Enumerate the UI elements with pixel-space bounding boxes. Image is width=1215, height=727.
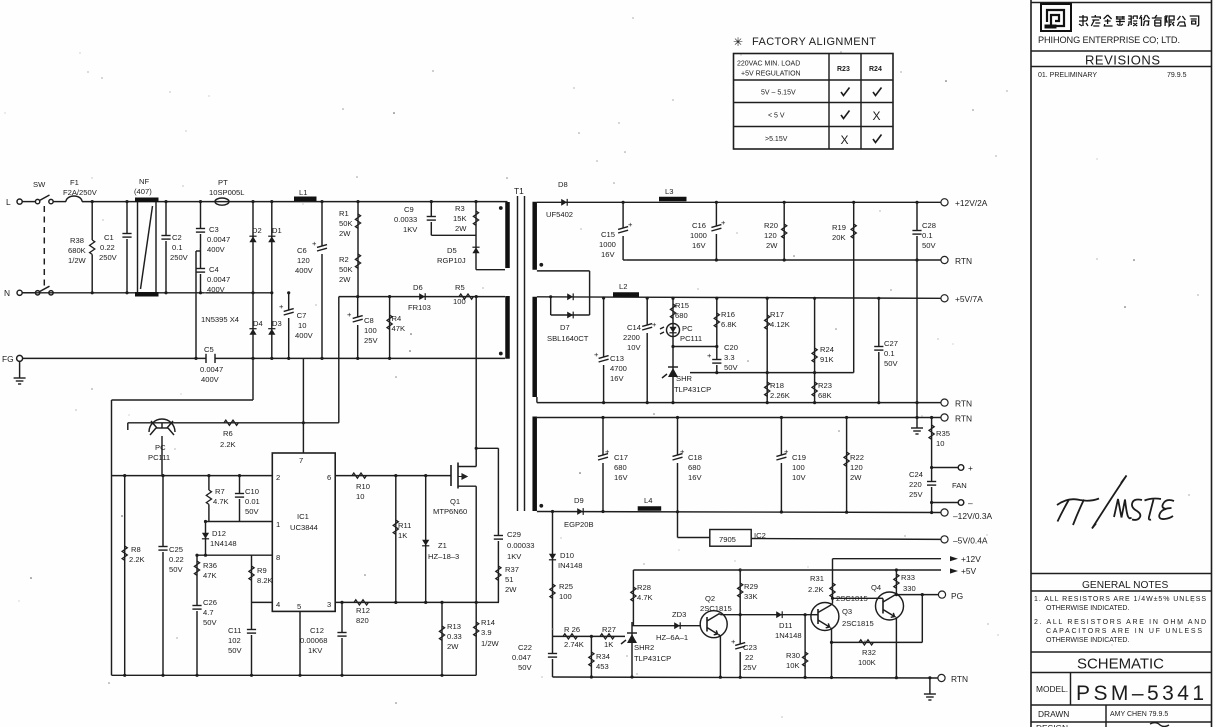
svg-text:102: 102: [228, 636, 241, 645]
svg-text:R16: R16: [721, 310, 735, 319]
svg-text:1: 1: [276, 520, 280, 529]
svg-text:C27: C27: [884, 339, 898, 348]
svg-text:R10: R10: [356, 482, 370, 491]
svg-text:< 5 V: < 5 V: [768, 113, 785, 120]
svg-text:25V: 25V: [909, 490, 923, 499]
svg-text:0.0047: 0.0047: [207, 235, 230, 244]
svg-text:7: 7: [299, 456, 303, 465]
svg-text:GENERAL NOTES: GENERAL NOTES: [1082, 580, 1168, 591]
svg-text:SCHEMATIC: SCHEMATIC: [1077, 656, 1164, 673]
svg-text:25V: 25V: [743, 663, 757, 672]
svg-text:10K: 10K: [786, 661, 800, 670]
svg-text:R37: R37: [505, 565, 519, 574]
svg-text:Q2: Q2: [705, 594, 715, 603]
svg-text:100: 100: [559, 592, 572, 601]
svg-text:100: 100: [453, 297, 466, 306]
svg-text:50V: 50V: [245, 507, 259, 516]
svg-text:+: +: [968, 463, 973, 473]
svg-text:L1: L1: [299, 188, 307, 197]
svg-text:C29: C29: [507, 530, 521, 539]
svg-text:33K: 33K: [744, 592, 758, 601]
svg-text:1/2W: 1/2W: [68, 256, 87, 265]
svg-text:FAN: FAN: [952, 481, 967, 490]
svg-text:+: +: [731, 637, 736, 646]
svg-text:RTN: RTN: [955, 399, 972, 409]
svg-text:R11: R11: [398, 521, 411, 530]
svg-text:RTN: RTN: [951, 674, 968, 684]
svg-text:R30: R30: [786, 651, 800, 660]
svg-text:C26: C26: [203, 598, 217, 607]
svg-text:50V: 50V: [724, 363, 738, 372]
svg-text:820: 820: [356, 616, 369, 625]
svg-text:PT: PT: [218, 178, 228, 187]
svg-text:OTHERWISE INDICATED.: OTHERWISE INDICATED.: [1046, 605, 1129, 612]
svg-text:16V: 16V: [601, 250, 615, 259]
svg-text:IC1: IC1: [297, 512, 309, 521]
svg-text:1KV: 1KV: [507, 552, 522, 561]
svg-text:50V: 50V: [518, 663, 532, 672]
svg-text:C28: C28: [922, 221, 936, 230]
svg-text:R4: R4: [392, 314, 402, 323]
svg-text:0.1: 0.1: [922, 231, 933, 240]
svg-text:TLP431CP: TLP431CP: [674, 385, 711, 394]
svg-text:R17: R17: [770, 310, 784, 319]
svg-text:680: 680: [675, 311, 688, 320]
svg-text:+: +: [784, 447, 789, 456]
svg-text:50V: 50V: [169, 565, 183, 574]
svg-text:680: 680: [688, 463, 701, 472]
svg-text:R9: R9: [257, 566, 267, 575]
svg-text:R5: R5: [455, 283, 465, 292]
svg-text:C14: C14: [627, 323, 641, 332]
svg-text:RGP10J: RGP10J: [437, 256, 466, 265]
svg-text:1KV: 1KV: [403, 225, 418, 234]
svg-text:–5V/0.4A: –5V/0.4A: [953, 536, 988, 546]
svg-text:680: 680: [614, 463, 627, 472]
svg-text:4700: 4700: [610, 364, 627, 373]
svg-text:22: 22: [745, 653, 753, 662]
svg-text:0.0033: 0.0033: [394, 215, 417, 224]
svg-text:N: N: [4, 288, 10, 298]
svg-text:10SP005L: 10SP005L: [209, 188, 244, 197]
svg-text:AMY CHEN 79.9.5: AMY CHEN 79.9.5: [1110, 711, 1168, 718]
svg-text:SW: SW: [33, 180, 46, 189]
svg-text:L2: L2: [619, 282, 627, 291]
svg-text:–12V/0.3A: –12V/0.3A: [953, 511, 993, 521]
svg-text:OTHERWISE INDICATED.: OTHERWISE INDICATED.: [1046, 637, 1129, 644]
svg-text:0.22: 0.22: [169, 555, 184, 564]
svg-text:C11: C11: [228, 626, 241, 635]
svg-text:100K: 100K: [858, 658, 876, 667]
svg-text:D10: D10: [560, 551, 574, 560]
svg-text:R36: R36: [203, 561, 217, 570]
svg-text:2W: 2W: [766, 241, 778, 250]
svg-text:25V: 25V: [364, 336, 378, 345]
svg-text:2200: 2200: [623, 333, 640, 342]
svg-text:ZD3: ZD3: [672, 610, 686, 619]
svg-text:+: +: [279, 302, 284, 311]
svg-text:D8: D8: [558, 180, 568, 189]
svg-text:✳: ✳: [733, 35, 743, 49]
svg-text:C16: C16: [692, 221, 706, 230]
svg-text:+5V/7A: +5V/7A: [955, 294, 983, 304]
svg-text:REVISIONS: REVISIONS: [1085, 53, 1160, 68]
svg-text:C17: C17: [614, 453, 628, 462]
svg-text:0.00033: 0.00033: [507, 541, 534, 550]
svg-text:C5: C5: [204, 345, 214, 354]
svg-text:R24: R24: [820, 345, 834, 354]
svg-text:250V: 250V: [170, 253, 189, 262]
svg-text:C20: C20: [724, 343, 738, 352]
svg-text:R35: R35: [936, 429, 950, 438]
svg-text:0.00068: 0.00068: [300, 636, 327, 645]
svg-text:C18: C18: [688, 453, 702, 462]
svg-text:C9: C9: [404, 205, 414, 214]
svg-text:D5: D5: [447, 246, 457, 255]
svg-text:X: X: [841, 133, 849, 147]
svg-text:1. ALL RESISTORS ARE 1/4W±5: 1. ALL RESISTORS ARE 1/4W±5% UNLESS: [1034, 596, 1206, 603]
svg-text:2.2K: 2.2K: [808, 585, 824, 594]
svg-text:R3: R3: [455, 204, 465, 213]
svg-text:400V: 400V: [207, 245, 226, 254]
svg-text:5V – 5.15V: 5V – 5.15V: [761, 90, 796, 97]
svg-text:+: +: [628, 220, 633, 229]
svg-text:R34: R34: [596, 652, 610, 661]
svg-text:2W: 2W: [455, 224, 467, 233]
svg-text:RTN: RTN: [955, 256, 972, 266]
svg-text:250V: 250V: [99, 253, 118, 262]
svg-text:C4: C4: [209, 265, 219, 274]
svg-text:2.2K: 2.2K: [129, 555, 145, 564]
svg-text:2SC1815: 2SC1815: [842, 619, 874, 628]
svg-text:Q4: Q4: [871, 583, 881, 592]
svg-text:10: 10: [356, 492, 364, 501]
svg-text:4.7K: 4.7K: [213, 497, 229, 506]
svg-text:R23: R23: [837, 66, 850, 73]
svg-text:+: +: [707, 351, 712, 360]
svg-text:D9: D9: [574, 496, 584, 505]
svg-text:C13: C13: [610, 354, 624, 363]
svg-text:D1: D1: [272, 226, 282, 235]
svg-text:F1: F1: [70, 178, 79, 187]
svg-text:C19: C19: [792, 453, 806, 462]
svg-text:2.2K: 2.2K: [220, 440, 236, 449]
svg-text:R18: R18: [770, 381, 784, 390]
svg-text:C23: C23: [743, 643, 757, 652]
svg-text:PC111: PC111: [148, 453, 170, 462]
svg-text:6.8K: 6.8K: [721, 320, 737, 329]
svg-text:400V: 400V: [207, 285, 226, 294]
svg-text:453: 453: [596, 662, 609, 671]
svg-text:10V: 10V: [627, 343, 641, 352]
svg-text:51: 51: [505, 575, 513, 584]
svg-text:C6: C6: [297, 246, 307, 255]
svg-text:L: L: [6, 197, 11, 207]
svg-text:Q1: Q1: [450, 497, 460, 506]
svg-text:PC: PC: [682, 324, 693, 333]
svg-text:T1: T1: [514, 186, 524, 196]
svg-text:16V: 16V: [692, 241, 706, 250]
svg-text:10: 10: [936, 439, 944, 448]
svg-text:C7: C7: [297, 311, 307, 320]
svg-text:F2A/250V: F2A/250V: [63, 188, 98, 197]
svg-text:C15: C15: [601, 230, 615, 239]
svg-text:400V: 400V: [295, 331, 314, 340]
svg-text:50V: 50V: [228, 646, 242, 655]
svg-text:0.1: 0.1: [884, 349, 895, 358]
svg-text:15K: 15K: [453, 214, 467, 223]
svg-text:2W: 2W: [447, 642, 459, 651]
svg-text:MODEL.: MODEL.: [1036, 684, 1068, 694]
svg-text:R 26: R 26: [564, 625, 580, 634]
svg-text:R13: R13: [447, 622, 461, 631]
svg-text:DESIGN: DESIGN: [1036, 723, 1068, 727]
svg-text:R32: R32: [862, 648, 876, 657]
svg-text:FACTORY ALIGNMENT: FACTORY ALIGNMENT: [752, 36, 876, 48]
svg-text:2.26K: 2.26K: [770, 391, 790, 400]
svg-text:0.22: 0.22: [100, 243, 115, 252]
svg-text:2W: 2W: [339, 229, 351, 238]
svg-text:X: X: [873, 109, 881, 123]
svg-text:R8: R8: [131, 545, 141, 554]
svg-text:HZ–18–3: HZ–18–3: [428, 552, 459, 561]
svg-text:1000: 1000: [599, 240, 616, 249]
svg-text:PC111: PC111: [680, 334, 702, 343]
svg-text:C2: C2: [172, 233, 182, 242]
svg-text:+: +: [652, 320, 657, 329]
svg-text:R2: R2: [339, 255, 349, 264]
svg-text:+5V REGULATION: +5V REGULATION: [741, 71, 801, 78]
svg-text:2.74K: 2.74K: [564, 640, 584, 649]
svg-text:SHR2: SHR2: [634, 643, 654, 652]
svg-text:50K: 50K: [339, 219, 353, 228]
svg-text:UC3844: UC3844: [290, 523, 318, 532]
svg-text:C10: C10: [245, 487, 259, 496]
svg-text:RTN: RTN: [955, 414, 972, 424]
svg-text:C1: C1: [104, 233, 114, 242]
svg-text:1000: 1000: [690, 231, 707, 240]
svg-text:2W: 2W: [339, 275, 351, 284]
svg-text:0.0047: 0.0047: [200, 365, 223, 374]
svg-text:PC: PC: [155, 443, 166, 452]
svg-text:1K: 1K: [604, 640, 613, 649]
svg-text:20K: 20K: [832, 233, 846, 242]
svg-text:1N4148: 1N4148: [775, 631, 802, 640]
svg-text:C8: C8: [364, 316, 374, 325]
svg-text:PHIHONG ENTERPRISE CO; LTD.: PHIHONG ENTERPRISE CO; LTD.: [1038, 35, 1180, 45]
svg-text:CAPACITORS ARE IN UF: CAPACITORS ARE IN UF UNLESS: [1046, 628, 1202, 635]
svg-text:R20: R20: [764, 221, 778, 230]
svg-text:4: 4: [276, 600, 280, 609]
svg-text:3.9: 3.9: [481, 628, 492, 637]
svg-text:1N4148: 1N4148: [210, 539, 237, 548]
svg-text:2W: 2W: [505, 585, 517, 594]
svg-text:R23: R23: [818, 381, 832, 390]
svg-text:DRAWN: DRAWN: [1038, 709, 1069, 719]
svg-text:79.9.5: 79.9.5: [1167, 72, 1187, 79]
svg-text:0.01: 0.01: [245, 497, 260, 506]
svg-text:UF5402: UF5402: [546, 210, 573, 219]
svg-text:+: +: [680, 447, 685, 456]
svg-text:4.7: 4.7: [203, 608, 214, 617]
svg-text:3.3: 3.3: [724, 353, 735, 362]
svg-text:68K: 68K: [818, 391, 832, 400]
svg-text:680K: 680K: [68, 246, 86, 255]
svg-text:+: +: [594, 350, 599, 359]
svg-text:8.2K: 8.2K: [257, 576, 273, 585]
svg-text:D7: D7: [560, 323, 570, 332]
svg-text:R22: R22: [850, 453, 864, 462]
svg-text:2SC1815: 2SC1815: [700, 604, 732, 613]
svg-text:0.1: 0.1: [172, 243, 183, 252]
svg-text:400V: 400V: [201, 375, 220, 384]
svg-text:D11: D11: [779, 621, 792, 630]
svg-text:–: –: [968, 498, 973, 508]
svg-text:R38: R38: [70, 236, 84, 245]
svg-text:50V: 50V: [884, 359, 898, 368]
svg-text:R33: R33: [901, 573, 915, 582]
svg-text:EGP20B: EGP20B: [564, 520, 594, 529]
svg-text:16V: 16V: [688, 473, 702, 482]
svg-text:+12V: +12V: [961, 554, 981, 564]
svg-text:FG: FG: [2, 354, 14, 364]
svg-text:120: 120: [764, 231, 777, 240]
svg-text:R6: R6: [223, 429, 233, 438]
svg-text:100: 100: [364, 326, 377, 335]
svg-text:50V: 50V: [922, 241, 936, 250]
svg-text:D6: D6: [413, 283, 423, 292]
svg-text:FR103: FR103: [408, 303, 431, 312]
svg-text:0.0047: 0.0047: [207, 275, 230, 284]
svg-text:50V: 50V: [203, 618, 217, 627]
svg-text:R31: R31: [810, 574, 824, 583]
svg-text:120: 120: [297, 256, 310, 265]
svg-text:D3: D3: [272, 319, 282, 328]
svg-text:+12V/2A: +12V/2A: [955, 198, 988, 208]
svg-text:C12: C12: [310, 626, 324, 635]
svg-text:47K: 47K: [203, 571, 217, 580]
svg-text:R1: R1: [339, 209, 349, 218]
svg-text:R14: R14: [481, 618, 495, 627]
svg-text:1/2W: 1/2W: [481, 639, 500, 648]
svg-text:+: +: [312, 239, 317, 248]
svg-text:C22: C22: [518, 643, 532, 652]
svg-text:PSM–5341: PSM–5341: [1076, 682, 1204, 705]
svg-text:0.047: 0.047: [512, 653, 531, 662]
svg-text:4.7K: 4.7K: [637, 593, 653, 602]
svg-text:R25: R25: [559, 582, 573, 591]
svg-text:R29: R29: [744, 582, 758, 591]
svg-text:4.12K: 4.12K: [770, 320, 790, 329]
svg-text:3: 3: [327, 600, 331, 609]
svg-text:2: 2: [276, 473, 280, 482]
svg-text:R24: R24: [869, 66, 882, 73]
svg-text:7905: 7905: [719, 535, 736, 544]
svg-text:SHR: SHR: [676, 374, 693, 383]
svg-text:2W: 2W: [850, 473, 862, 482]
svg-text:HZ–6A–1: HZ–6A–1: [656, 633, 688, 642]
svg-text:(407): (407): [134, 187, 152, 196]
svg-text:IN4148: IN4148: [558, 561, 583, 570]
svg-text:NF: NF: [139, 177, 149, 186]
svg-text:8: 8: [276, 553, 280, 562]
svg-text:L4: L4: [644, 496, 652, 505]
svg-text:1N5395 X4: 1N5395 X4: [201, 315, 239, 324]
svg-text:10V: 10V: [792, 473, 806, 482]
svg-text:2. ALL RESISTORS ARE IN: 2. ALL RESISTORS ARE IN OHM AND: [1034, 619, 1206, 626]
svg-text:330: 330: [903, 584, 916, 593]
svg-text:400V: 400V: [295, 266, 314, 275]
svg-text:L3: L3: [665, 187, 673, 196]
svg-text:R19: R19: [832, 223, 846, 232]
svg-text:C25: C25: [169, 545, 183, 554]
svg-text:D4: D4: [253, 319, 263, 328]
svg-text:R15: R15: [675, 301, 689, 310]
svg-text:16V: 16V: [614, 473, 628, 482]
svg-text:6: 6: [327, 473, 331, 482]
svg-text:220VAC MIN. LOAD: 220VAC MIN. LOAD: [737, 61, 800, 68]
svg-text:5: 5: [297, 602, 301, 611]
svg-text:100: 100: [792, 463, 805, 472]
svg-text:R28: R28: [637, 583, 651, 592]
svg-text:Q3: Q3: [842, 607, 852, 616]
svg-text:1K: 1K: [398, 531, 407, 540]
svg-text:D2: D2: [252, 226, 262, 235]
svg-text:Z1: Z1: [438, 541, 447, 550]
svg-text:50K: 50K: [339, 265, 353, 274]
svg-text:R7: R7: [215, 487, 225, 496]
svg-text:PG: PG: [951, 591, 963, 601]
svg-text:C3: C3: [209, 225, 219, 234]
svg-text:MTP6N60: MTP6N60: [433, 507, 467, 516]
svg-text:R27: R27: [602, 625, 616, 634]
svg-text:10: 10: [298, 321, 306, 330]
svg-text:+: +: [605, 447, 610, 456]
svg-text:SBL1640CT: SBL1640CT: [547, 334, 589, 343]
svg-text:47K: 47K: [392, 324, 406, 333]
svg-text:TLP431CP: TLP431CP: [634, 654, 671, 663]
svg-text:0.33: 0.33: [447, 632, 462, 641]
svg-text:120: 120: [850, 463, 863, 472]
svg-text:91K: 91K: [820, 355, 834, 364]
svg-text:+5V: +5V: [961, 566, 977, 576]
svg-text:16V: 16V: [610, 374, 624, 383]
svg-text:R12: R12: [356, 606, 370, 615]
svg-text:01. PRELIMINARY: 01. PRELIMINARY: [1038, 72, 1097, 79]
svg-text:D12: D12: [212, 529, 226, 538]
svg-text:1KV: 1KV: [308, 646, 323, 655]
svg-text:>5.15V: >5.15V: [765, 136, 788, 143]
svg-text:+: +: [721, 218, 726, 227]
svg-text:C24: C24: [909, 470, 923, 479]
svg-text:+: +: [347, 310, 352, 319]
svg-text:220: 220: [909, 480, 922, 489]
